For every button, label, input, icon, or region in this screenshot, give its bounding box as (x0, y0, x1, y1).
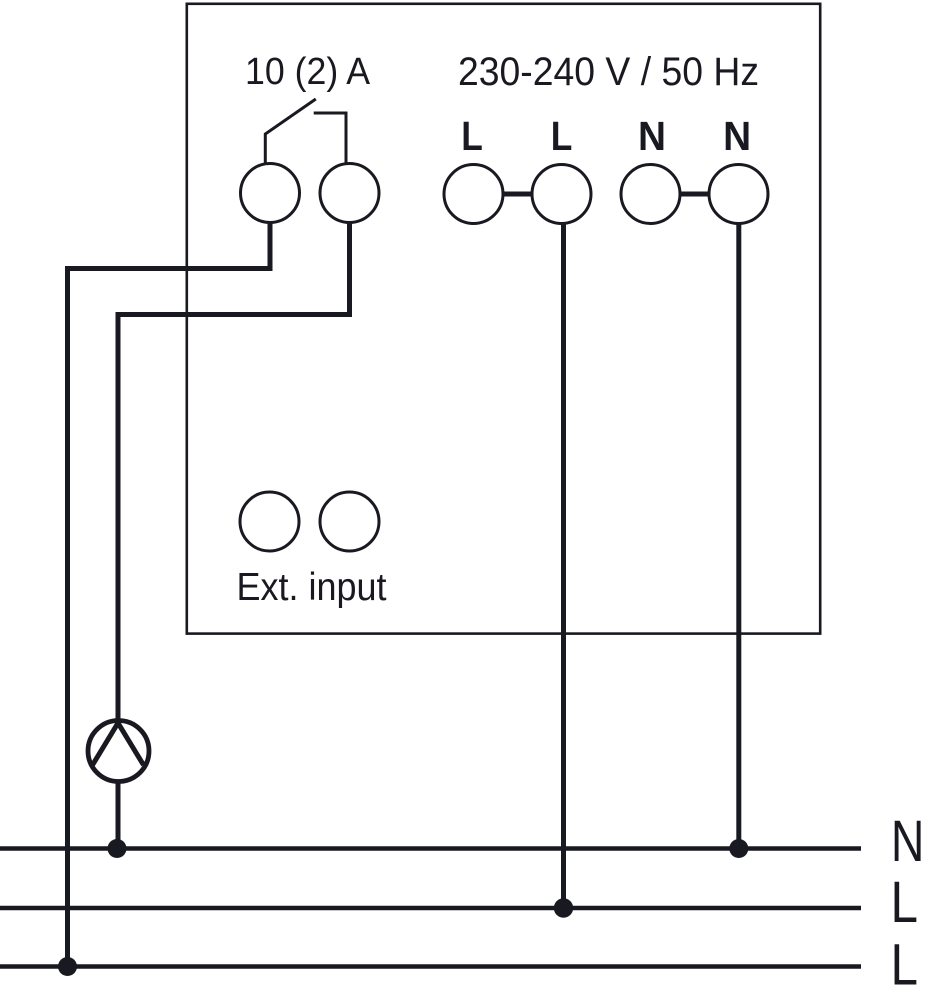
svg-text:N: N (723, 113, 751, 159)
svg-text:10 (2) A: 10 (2) A (245, 51, 371, 93)
svg-text:230-240 V / 50 Hz: 230-240 V / 50 Hz (458, 50, 759, 94)
svg-text:L: L (891, 870, 919, 935)
svg-text:L: L (551, 113, 573, 159)
svg-text:N: N (638, 113, 666, 159)
svg-text:Ext. input: Ext. input (237, 566, 387, 609)
svg-text:L: L (891, 933, 919, 998)
svg-text:L: L (461, 113, 483, 159)
svg-text:N: N (891, 809, 925, 874)
